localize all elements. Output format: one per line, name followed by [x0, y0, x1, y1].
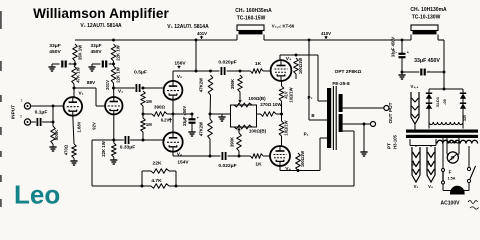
svg-text:47K2W: 47K2W	[199, 77, 204, 92]
wire down to cathodyne grid	[95, 88, 97, 106]
pilot lamp winding	[446, 138, 448, 141]
svg-text:154V: 154V	[177, 160, 189, 166]
svg-text:V₃: V₃	[414, 184, 419, 189]
svg-text:156V: 156V	[174, 61, 186, 67]
ground below cap 2	[91, 64, 93, 67]
svg-text:AC100V: AC100V	[441, 201, 461, 207]
resistor 390K lower grid leak	[237, 133, 242, 151]
svg-text:450V: 450V	[91, 49, 103, 54]
scan edge artifacts left border	[0, 11, 2, 29]
wire V4 plate line	[279, 166, 281, 171]
wire jack2 to cap	[31, 121, 36, 123]
svg-text:1.68V: 1.68V	[77, 121, 82, 132]
svg-text:V₁: V₁	[118, 89, 123, 95]
svg-text:47K2W: 47K2W	[199, 121, 204, 136]
svg-text:47K 1W: 47K 1W	[76, 66, 81, 82]
AC plug	[442, 184, 444, 191]
svg-text:33μF: 33μF	[49, 43, 60, 49]
wire to cathodyne plate	[113, 83, 115, 97]
svg-text:0.1μF: 0.1μF	[35, 110, 48, 116]
feedback wire from secondary	[343, 130, 354, 132]
ground from secondary	[363, 123, 366, 126]
svg-text:V₂: V₂	[177, 152, 182, 158]
svg-text:100Ω1W: 100Ω1W	[300, 151, 305, 167]
svg-text:100Ω(B): 100Ω(B)	[248, 96, 266, 101]
svg-text:22K 1W: 22K 1W	[116, 66, 121, 82]
svg-text:Leo: Leo	[14, 180, 60, 210]
resistor 22K 1W cathode load	[113, 140, 115, 143]
resistor 390K upper grid leak	[238, 75, 243, 92]
tube V1 cathodyne	[105, 97, 122, 114]
input jack 2	[24, 119, 30, 125]
svg-text:V₁: V₁	[78, 91, 83, 97]
heater winding V4	[427, 147, 435, 182]
power transformer core	[406, 130, 478, 133]
capacitor 0.1uF	[36, 118, 38, 126]
resistor 47K 1W	[74, 61, 76, 66]
diode D3	[460, 94, 466, 99]
svg-text:33μF 450V: 33μF 450V	[414, 58, 440, 64]
resistor 4.7K feedback series	[151, 184, 169, 189]
output terminal 1	[384, 106, 389, 111]
feedback bottom wire	[92, 185, 151, 187]
V2 cathode node and bias network	[172, 100, 174, 133]
resistor 22K feedback parallel	[141, 171, 143, 186]
resistor 35K 1W	[73, 44, 78, 61]
svg-text:V₃,₄: KT-66: V₃,₄: KT-66	[272, 24, 295, 29]
svg-text:390K: 390K	[230, 78, 235, 89]
svg-text:F: F	[449, 170, 452, 175]
svg-text:1.5A: 1.5A	[448, 177, 456, 181]
svg-text:2: 2	[20, 115, 22, 119]
svg-text:V₂ 12AU7/. 5814A: V₂ 12AU7/. 5814A	[167, 24, 209, 30]
svg-text:33μF: 33μF	[91, 43, 102, 48]
coupling capacitor 0.33uF lower	[114, 139, 124, 141]
resistor 1K grid stopper V4	[251, 154, 264, 159]
resistor 22K 1W plate load lower	[113, 61, 115, 66]
coupling capacitor 0.020uF	[220, 67, 222, 75]
OPT secondary winding	[339, 94, 343, 112]
wire node down	[52, 106, 54, 122]
wire secondary to output terminal 1	[343, 107, 384, 109]
svg-text:1M: 1M	[146, 122, 152, 127]
resistor 100 ohm 1W screen V3	[294, 58, 299, 74]
svg-text:92V: 92V	[92, 122, 97, 130]
ground below bypass cap	[191, 129, 193, 132]
diode D1	[426, 94, 432, 99]
svg-text:88V: 88V	[87, 80, 96, 85]
heater winding V3	[412, 147, 420, 182]
pilot lamp P	[446, 141, 448, 154]
coupling capacitor 0.022uF	[221, 152, 223, 160]
choke CH1	[410, 35, 412, 41]
svg-text:470Ω: 470Ω	[64, 144, 69, 155]
output transformer OPT primary winding	[327, 88, 331, 148]
svg-text:Williamson Amplifier: Williamson Amplifier	[33, 6, 169, 21]
cathodyne cathode wire	[113, 114, 115, 140]
svg-text:1M: 1M	[146, 99, 152, 104]
svg-text:0.020μF: 0.020μF	[218, 60, 236, 66]
tube V2 lower driver	[163, 132, 182, 151]
svg-text:100Ω(B): 100Ω(B)	[249, 129, 267, 134]
svg-text:V₄: V₄	[285, 166, 291, 172]
wire V2a plate to coupling node	[172, 71, 174, 81]
resistor 500K	[52, 122, 54, 126]
resistor 1M upper grid leak	[141, 91, 146, 106]
wire jack1 to grid node	[31, 105, 64, 107]
svg-text:0.5μF: 0.5μF	[134, 70, 147, 76]
svg-text:OPT 2F8KΩ: OPT 2F8KΩ	[335, 69, 362, 75]
input jack 1	[24, 103, 30, 109]
wire V2b plate to lower coupling node	[172, 152, 174, 156]
svg-text:100Ω1W: 100Ω1W	[298, 58, 303, 74]
svg-text:10Ω/1W: 10Ω/1W	[289, 87, 294, 102]
svg-text:390K: 390K	[230, 136, 235, 147]
ground below cathode load	[113, 157, 115, 160]
svg-text:H3-105: H3-105	[393, 134, 398, 148]
svg-text:FE-25-8: FE-25-8	[332, 81, 350, 87]
tube V3 KT-66 upper	[271, 60, 292, 81]
svg-text:SI-D1: SI-D1	[435, 96, 440, 107]
svg-text:35K 1W: 35K 1W	[78, 44, 83, 60]
svg-text:6.2V: 6.2V	[161, 118, 170, 123]
svg-text:OUT PUT: OUT PUT	[388, 102, 394, 123]
resistor 100 ohm 1W screen V4	[296, 153, 301, 171]
wire plate node right	[74, 87, 96, 89]
svg-text:33μF 450V: 33μF 450V	[391, 37, 396, 58]
wire bridge plus to CH1	[443, 40, 445, 89]
ground of filter caps	[401, 71, 404, 74]
wire secondary to output terminal 2	[343, 123, 371, 125]
svg-text:1: 1	[21, 99, 23, 103]
svg-text:6.3: 6.3	[426, 161, 430, 166]
ground below 470 ohm	[73, 158, 75, 161]
capacitor 33uF 450V cathode bypass	[173, 113, 192, 115]
svg-text:P₁: P₁	[304, 132, 309, 137]
svg-text:INPUT: INPUT	[11, 105, 17, 119]
svg-text:V₄: V₄	[428, 184, 433, 189]
rectifier bridge	[429, 88, 463, 90]
capacitor 33uF 450V reservoir	[402, 71, 419, 73]
resistor 10 ohm 1W lower cathode	[279, 121, 284, 136]
potentiometer box 100 ohm pair	[231, 105, 257, 127]
svg-text:401V: 401V	[197, 31, 207, 36]
svg-text:P₂: P₂	[307, 95, 312, 100]
wire cap to node	[42, 121, 53, 123]
wire plate to OPT P2	[317, 55, 319, 101]
tube V4 KT-66 lower	[270, 146, 290, 166]
heater winding hanger bar	[409, 139, 411, 146]
svg-text:V₃,₄: V₃,₄	[411, 84, 419, 89]
svg-text:-05: -05	[442, 98, 447, 104]
svg-text:270Ω 10W: 270Ω 10W	[260, 102, 282, 107]
resistor 390 ohm bias	[152, 112, 167, 117]
resistor 47K 2W upper	[208, 75, 213, 95]
svg-text:22K 1W: 22K 1W	[101, 140, 106, 156]
svg-text:PT: PT	[387, 143, 392, 149]
svg-text:4.7K: 4.7K	[151, 178, 162, 184]
svg-text:22K 1W: 22K 1W	[116, 44, 121, 60]
diode D2	[426, 104, 432, 109]
resistor 1M lower grid leak	[141, 118, 146, 132]
svg-text:201V: 201V	[105, 80, 110, 90]
tube V2 upper driver	[164, 81, 183, 100]
HV secondary winding	[428, 115, 430, 122]
svg-text:1K: 1K	[255, 162, 262, 168]
feedback wire from cathode node	[92, 139, 114, 141]
svg-text:V₁ 12AU7/. 5814A: V₁ 12AU7/. 5814A	[80, 23, 122, 29]
resistor 22K 1W plate load upper	[112, 39, 115, 42]
B+ rail wire	[75, 39, 237, 41]
svg-text:1K: 1K	[255, 61, 262, 67]
ground below cap 1	[51, 64, 53, 67]
svg-text:450V: 450V	[49, 49, 61, 55]
svg-text:TC-160-15W: TC-160-15W	[237, 16, 266, 22]
svg-text:10Ω/1W: 10Ω/1W	[284, 120, 289, 135]
svg-text:500K: 500K	[54, 129, 59, 141]
svg-text:320: 320	[463, 115, 467, 121]
svg-text:CH₁ 10H130mA: CH₁ 10H130mA	[410, 7, 447, 13]
wire V3 plate line	[279, 55, 281, 60]
coupling capacitor 0.5uF upper	[114, 87, 135, 89]
output terminal 2	[371, 122, 376, 127]
resistor 10 ohm 1W upper cathode	[281, 81, 283, 86]
svg-text:TC-10-130W: TC-10-130W	[412, 15, 441, 21]
capacitor 33uF 450V filter after choke	[401, 39, 404, 42]
svg-text:33μF 450V: 33μF 450V	[182, 106, 187, 127]
svg-text:CH₂ 160H35mA: CH₂ 160H35mA	[235, 8, 272, 14]
resistor 1K grid stopper V3	[251, 69, 264, 74]
ground below 500K	[52, 144, 54, 147]
svg-text:V₂: V₂	[177, 74, 182, 80]
svg-text:V₃: V₃	[286, 56, 292, 62]
primary winding	[437, 140, 443, 143]
wire to pot box with ground tap	[210, 113, 231, 115]
svg-text:0.33μF: 0.33μF	[120, 145, 136, 151]
resistor 270 ohm 10W	[257, 113, 261, 115]
fuse F 1.5A	[442, 138, 444, 169]
wire plate to OPT P1	[319, 138, 321, 171]
resistor 47K 2W lower	[208, 119, 213, 139]
svg-text:390Ω: 390Ω	[154, 105, 166, 110]
svg-text:6.3: 6.3	[411, 161, 415, 166]
diode D4	[460, 104, 466, 109]
svg-text:22K: 22K	[153, 161, 162, 167]
wire 47K to V1 plate	[73, 84, 75, 97]
choke CH2	[236, 35, 238, 41]
tube V1 first stage	[64, 97, 83, 116]
OPT core	[332, 86, 334, 150]
wire B+ drop to driver plate	[195, 39, 198, 42]
wire B+ to OPT B terminal	[308, 39, 311, 42]
svg-text:0.022μF: 0.022μF	[218, 163, 236, 169]
resistor 470 ohm cathode	[73, 116, 74, 144]
switch S	[468, 146, 470, 168]
svg-text:410V: 410V	[321, 31, 331, 36]
